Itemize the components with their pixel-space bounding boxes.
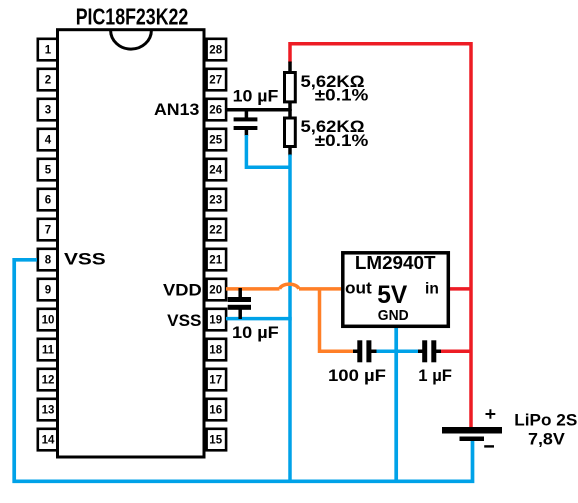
svg-text:7: 7 [45,224,51,236]
svg-text:10 µF: 10 µF [232,323,279,342]
svg-text:25: 25 [209,134,222,146]
svg-text:6: 6 [45,194,51,206]
svg-text:28: 28 [209,44,222,56]
pin 26 [207,99,227,121]
pin 3 [38,99,58,121]
svg-text:1: 1 [45,44,52,56]
svg-text:3: 3 [45,104,51,116]
pin 17 [207,369,227,391]
svg-text:20: 20 [209,284,222,296]
regulator U2 pin label in [425,281,439,298]
battery BT1 label 7,8V [528,429,565,448]
svg-text:5: 5 [45,164,52,176]
pin 2 [38,69,58,91]
svg-text:VDD: VDD [163,281,202,300]
IC U1 notch [111,30,152,49]
svg-text:27: 27 [209,74,222,86]
resistor R1 tolerance [315,86,369,105]
pin 1 [38,39,58,61]
wire regulator GND to rail (blue) [394,326,398,481]
resistor R1 [285,73,296,102]
capacitor C2 value 10 uF [232,323,279,342]
svg-text:10 µF: 10 µF [233,86,279,105]
pin 6 [38,189,58,211]
svg-text:PIC18F23K22: PIC18F23K22 [76,3,189,29]
pin 23 [207,189,227,211]
svg-text:16: 16 [209,404,222,416]
regulator U2 label 5V [377,281,407,309]
svg-text:17: 17 [209,374,222,386]
battery BT1 negative plate [460,437,485,442]
capacitor C1 plates [234,117,258,130]
svg-text:24: 24 [209,164,222,176]
capacitor C2 leads [238,288,242,319]
capacitor C3 value 100 uF [328,366,386,385]
pin 19 label VSS [167,311,201,330]
svg-text:26: 26 [209,104,222,116]
wire divider bottom ground vertical (blue) [288,155,292,484]
resistor R1 value 5,62KOhm [301,72,365,91]
wire battery + rail (red) [290,44,471,428]
IC U1 PIC18F23K22 body [58,30,205,457]
resistor R1 leads [288,62,292,112]
svg-text:±0.1%: ±0.1% [315,131,369,150]
wire 1uF to battery + (red) [441,350,472,354]
pin 16 [207,399,227,421]
pin 4 [38,129,58,151]
pin 9 [38,279,58,301]
wire between 100uF and 1uF (blue) [371,350,422,354]
svg-text:7,8V: 7,8V [528,429,565,448]
svg-text:VSS: VSS [167,311,201,330]
wire pin 8 VSS to bottom rail (blue) [14,260,472,482]
svg-text:21: 21 [209,254,222,266]
wire regulator in (red) [449,287,471,291]
resistor R2 [285,118,296,147]
battery BT1 plus sign [486,409,496,419]
pin 27 [207,69,227,91]
capacitor C1 leads [245,110,249,136]
IC U1 label PIC18F23K22 [76,3,189,29]
battery BT1 label LiPo 2S [514,411,577,430]
capacitor C3 plates [357,340,371,362]
pin 24 [207,159,227,181]
pin 7 [38,219,58,241]
capacitor C4 value 1 uF [418,366,452,385]
capacitor C4 plates [422,340,436,362]
pin 12 [38,369,58,391]
svg-text:100 µF: 100 µF [328,366,386,385]
pin 19 [207,309,227,331]
capacitor C2 plates [228,297,251,310]
wire hop over ground (orange) [280,284,300,289]
pin 18 [207,339,227,361]
pin 15 [207,429,227,451]
wire pin 19 VSS (blue) [226,317,292,321]
pin 5 [38,159,58,181]
svg-text:23: 23 [209,194,222,206]
svg-text:14: 14 [42,434,55,446]
svg-text:4: 4 [45,134,52,146]
pin 8 [38,249,58,270]
svg-text:12: 12 [42,374,55,386]
pin 21 [207,249,227,270]
pin 28 [207,39,227,61]
pin 25 [207,129,227,151]
svg-text:1 µF: 1 µF [418,366,452,385]
pin 8 label VSS [64,250,106,269]
svg-text:GND: GND [378,307,409,324]
wire C1 to ground (blue) [246,135,291,167]
wire to regulator out (orange) [299,287,341,291]
svg-text:LiPo 2S: LiPo 2S [514,411,577,430]
svg-text:±0.1%: ±0.1% [315,86,369,105]
svg-text:19: 19 [209,314,222,326]
wire pin 26 to divider node [226,108,291,112]
svg-text:18: 18 [209,344,222,356]
pin 20 [207,279,227,301]
svg-text:9: 9 [45,284,51,296]
regulator U2 label LM2940T [355,253,436,273]
svg-text:VSS: VSS [64,250,106,269]
svg-text:22: 22 [209,224,222,236]
svg-text:5V: 5V [377,281,407,309]
capacitor C3 leads [353,350,377,354]
battery BT1 minus sign [484,445,494,447]
pin 22 [207,219,227,241]
regulator U2 pin label out [345,279,372,298]
wire branch to 100uF (orange) [320,289,355,351]
pin 26 label AN13 [154,100,199,119]
battery BT1 positive plate [442,427,502,434]
resistor R2 tolerance [315,131,369,150]
pin 14 [38,429,58,451]
resistor R2 value 5,62KOhm [301,117,365,136]
pin 10 [38,309,58,331]
pin 13 [38,399,58,421]
svg-text:out: out [345,279,372,298]
svg-text:13: 13 [42,404,55,416]
regulator U2 LM2940T box [343,253,449,326]
svg-text:10: 10 [42,314,55,326]
svg-text:LM2940T: LM2940T [355,253,436,273]
capacitor C1 value 10 uF [233,86,279,105]
svg-text:2: 2 [45,74,51,86]
regulator U2 pin label GND [378,307,409,324]
capacitor C4 leads [418,350,441,354]
wire pin 20 VDD (orange) [226,287,280,291]
resistor R2 leads [288,109,292,156]
svg-text:15: 15 [209,434,222,446]
svg-text:11: 11 [42,344,55,356]
pin 11 [38,339,58,361]
svg-text:AN13: AN13 [154,100,199,119]
svg-text:in: in [425,281,439,298]
pin 20 label VDD [163,281,202,300]
svg-text:8: 8 [45,254,52,266]
